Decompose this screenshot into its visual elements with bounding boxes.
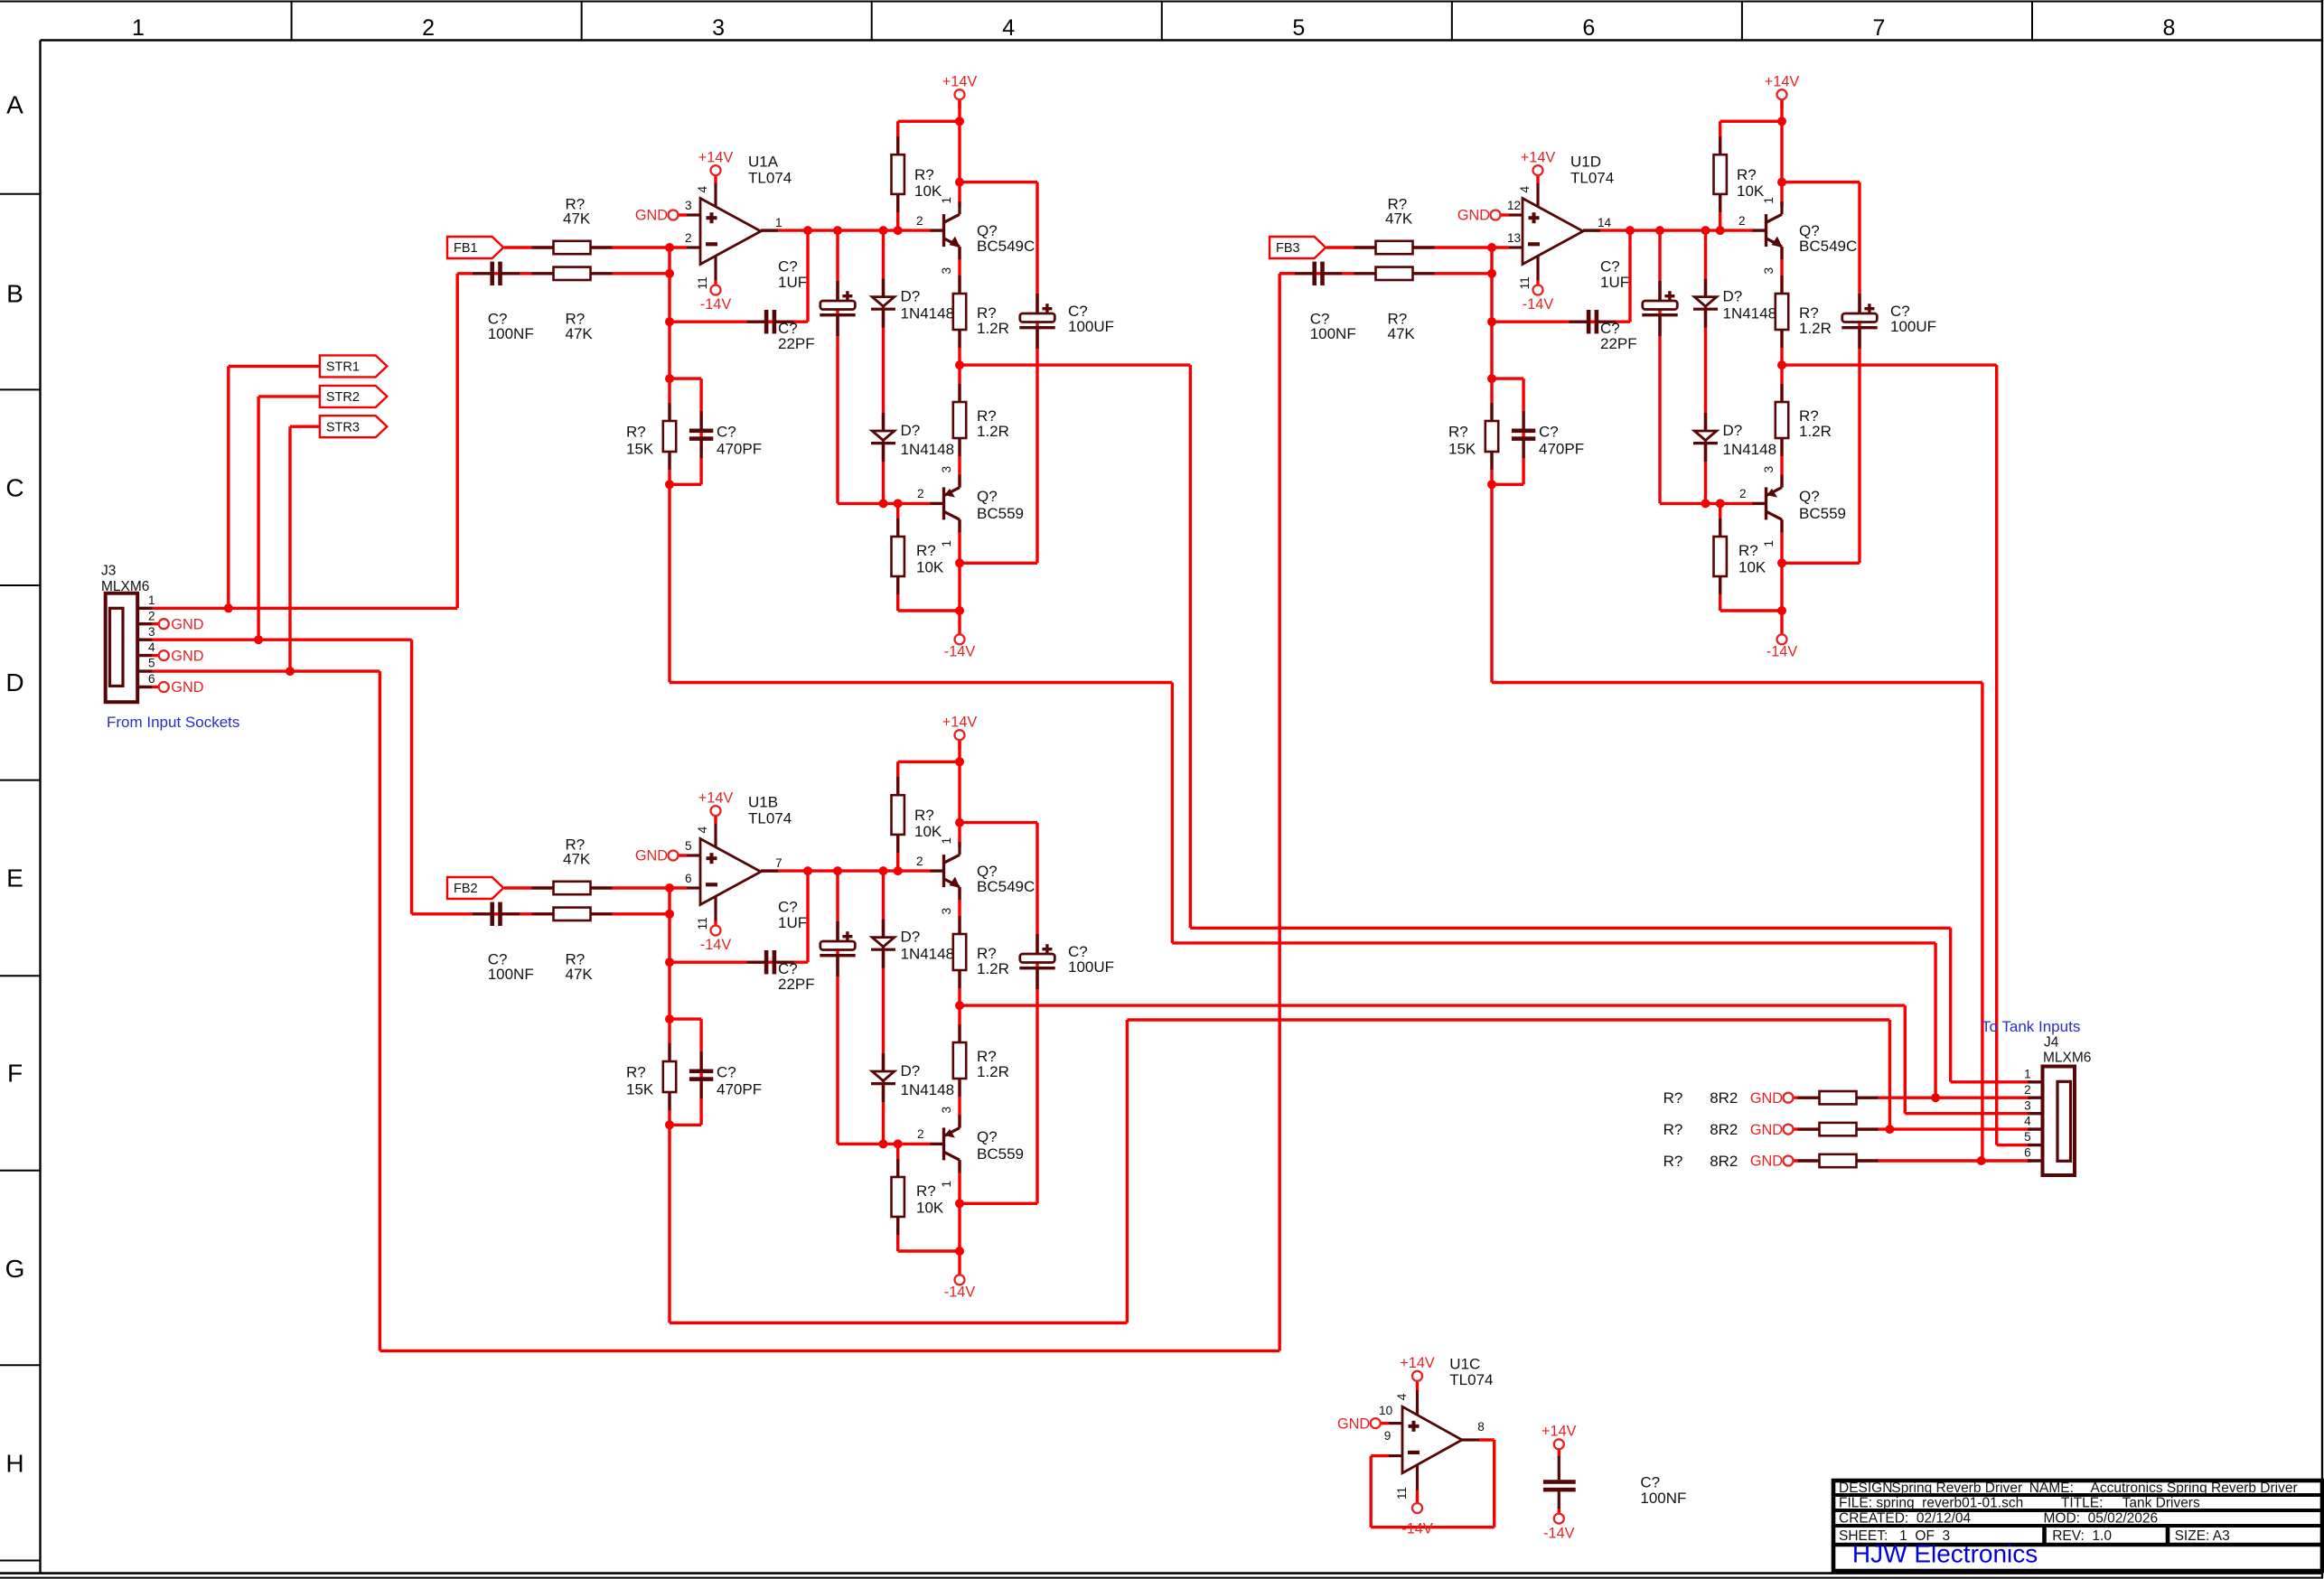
diode D? 1N4148 (upper): [871, 920, 895, 968]
resistor R? 47K (feedback input): [532, 908, 613, 920]
svg-text:J4: J4: [2044, 1034, 2059, 1050]
svg-text:D: D: [5, 668, 23, 696]
svg-text:5: 5: [1292, 15, 1305, 41]
svg-text:5: 5: [685, 839, 692, 853]
wire: [1704, 230, 1707, 503]
svg-text:Spring Reverb Driver: Spring Reverb Driver: [1891, 1481, 2022, 1496]
svg-text:3: 3: [1762, 267, 1776, 275]
label R? 10K: [914, 166, 942, 200]
label R? 15K: [1448, 424, 1476, 458]
svg-text:+14V: +14V: [1542, 1424, 1577, 1440]
svg-text:U1A: U1A: [748, 153, 779, 170]
wire: [1583, 229, 1753, 231]
svg-text:100UF: 100UF: [1890, 318, 1936, 335]
svg-text:R?: R?: [916, 1182, 936, 1200]
svg-text:15K: 15K: [626, 440, 654, 457]
title block: [1833, 1481, 2322, 1571]
ground flag GND: [635, 848, 679, 864]
svg-text:GND: GND: [635, 848, 668, 864]
label R? 8R2: [1663, 1121, 1738, 1138]
svg-text:H: H: [5, 1450, 23, 1478]
svg-text:1.2R: 1.2R: [977, 1063, 1009, 1080]
ground flag GND: [159, 648, 204, 664]
wire: [1416, 1490, 1419, 1504]
svg-text:1.2R: 1.2R: [977, 320, 1009, 337]
junction: [665, 1014, 674, 1023]
svg-text:13: 13: [1507, 231, 1521, 245]
svg-text:3: 3: [940, 1107, 953, 1114]
svg-text:+14V: +14V: [698, 789, 734, 806]
wire: [714, 280, 717, 286]
label D? 1N4148: [1723, 422, 1777, 458]
svg-text:4: 4: [696, 186, 709, 193]
junction: [894, 1139, 903, 1148]
svg-text:47K: 47K: [563, 851, 591, 868]
svg-text:1: 1: [940, 837, 953, 845]
junction: [224, 603, 233, 612]
junction: [879, 1139, 888, 1148]
pin numbers Q? BC559: [917, 1107, 953, 1188]
svg-text:470PF: 470PF: [717, 440, 762, 457]
junction: [955, 606, 964, 615]
wire: [898, 120, 960, 123]
svg-text:TL074: TL074: [748, 169, 792, 186]
wire: [761, 229, 931, 231]
svg-text:10K: 10K: [916, 559, 944, 576]
junction: [879, 226, 888, 235]
svg-text:BC549C: BC549C: [977, 878, 1035, 895]
junction: [1487, 480, 1496, 489]
op-amp U1C TL074 (spare): [1379, 1356, 1493, 1500]
note From Input Sockets: [107, 714, 239, 731]
svg-text:MLXM6: MLXM6: [101, 579, 149, 594]
wire: [960, 181, 1037, 183]
svg-text:-14V: -14V: [700, 937, 732, 953]
svg-text:2: 2: [685, 231, 692, 245]
wire: [958, 611, 961, 635]
label R? 10K: [916, 542, 944, 576]
svg-text:1N4148: 1N4148: [901, 441, 955, 458]
svg-text:47K: 47K: [1385, 210, 1413, 228]
svg-text:E: E: [6, 864, 23, 892]
junction: [665, 269, 674, 278]
wire STR1: [229, 366, 320, 608]
svg-text:11: 11: [1395, 1487, 1409, 1500]
svg-text:2: 2: [916, 214, 923, 228]
ground flag GND: [1750, 1154, 1794, 1170]
svg-text:470PF: 470PF: [1539, 440, 1584, 457]
svg-text:GND: GND: [1337, 1415, 1370, 1432]
resistor R? 1.2R (lower emitter): [953, 384, 966, 456]
svg-text:U1C: U1C: [1449, 1356, 1480, 1373]
label D? 1N4148: [901, 929, 955, 963]
wire: [1279, 272, 1492, 275]
svg-text:10K: 10K: [916, 1200, 944, 1217]
resistor R? 10K (upper bias): [892, 136, 904, 212]
label R? 1.2R: [977, 304, 1009, 337]
resistor R? 47K (feedback input): [1354, 267, 1435, 280]
wire: [670, 960, 808, 963]
net flag FB1: [447, 237, 503, 258]
svg-text:8: 8: [1477, 1420, 1485, 1434]
svg-text:1: 1: [132, 15, 145, 41]
label R? 47K: [563, 195, 591, 227]
diode D? 1N4148 (upper): [1693, 279, 1718, 328]
wire: [1326, 246, 1509, 248]
node FB2 sense loop (R15K to J4 pin4): [670, 1020, 1889, 1323]
label D? 1N4148: [901, 422, 955, 458]
svg-text:1UF: 1UF: [1600, 274, 1629, 291]
svg-text:1N4148: 1N4148: [901, 946, 955, 963]
wire: [153, 622, 160, 625]
wire: [1492, 321, 1630, 323]
junction: [955, 757, 964, 766]
svg-text:100NF: 100NF: [1310, 325, 1356, 342]
junction: [1777, 117, 1786, 126]
svg-text:R?: R?: [1663, 1089, 1683, 1107]
svg-text:4: 4: [1395, 1393, 1409, 1400]
svg-text:1N4148: 1N4148: [901, 305, 955, 322]
svg-text:100UF: 100UF: [1068, 318, 1114, 335]
svg-text:HJW Electronics: HJW Electronics: [1852, 1540, 2038, 1568]
svg-text:TL074: TL074: [1570, 169, 1614, 186]
power flag +14V: [942, 73, 978, 99]
wire: [1780, 247, 1783, 488]
wire 8R2 row 2: [1792, 1127, 2031, 1130]
wire: [1380, 1422, 1389, 1425]
svg-text:10K: 10K: [1738, 559, 1766, 576]
power flag +14V: [1542, 1424, 1577, 1450]
wire: [958, 739, 961, 847]
svg-text:15K: 15K: [626, 1080, 654, 1098]
svg-text:D?: D?: [901, 288, 921, 305]
svg-text:1N4148: 1N4148: [1723, 305, 1777, 322]
svg-text:A: A: [6, 90, 23, 118]
svg-text:2: 2: [148, 609, 155, 622]
label C? 1UF: [1600, 257, 1629, 290]
svg-text:470PF: 470PF: [717, 1080, 762, 1098]
svg-text:Q?: Q?: [977, 488, 998, 505]
ground flag GND: [159, 616, 204, 632]
junction: [955, 558, 964, 567]
junction: [955, 178, 964, 187]
svg-text:TL074: TL074: [748, 809, 792, 827]
svg-text:4: 4: [1002, 15, 1015, 41]
diode D? 1N4148 (lower): [871, 1053, 895, 1102]
svg-text:2: 2: [1738, 214, 1746, 228]
label D? 1N4148: [1723, 288, 1777, 322]
resistor R? 1.2R (lower emitter): [953, 1024, 966, 1097]
wire: [960, 562, 1037, 565]
svg-text:3: 3: [940, 466, 953, 473]
svg-text:TITLE:: TITLE:: [2061, 1496, 2104, 1511]
svg-text:+14V: +14V: [1400, 1355, 1435, 1371]
label R? 47K: [1388, 311, 1416, 342]
wire J3 pin1 to STR1 and channel1 input: [153, 274, 457, 609]
label R? 47K: [566, 951, 594, 983]
svg-text:12: 12: [1507, 199, 1521, 212]
svg-text:100UF: 100UF: [1068, 958, 1114, 976]
resistor R? 1.2R (upper emitter): [953, 276, 966, 348]
svg-text:3: 3: [940, 267, 953, 275]
wire: [1035, 182, 1038, 564]
wire: [1416, 1380, 1419, 1390]
junction: [665, 910, 674, 919]
wire: [806, 871, 809, 962]
capacitor C? 22PF (compensation): [747, 950, 794, 974]
svg-text:3: 3: [148, 625, 155, 639]
svg-text:10: 10: [1379, 1404, 1393, 1417]
capacitor C? 470PF (feedback): [689, 1051, 713, 1098]
wire: [1780, 98, 1783, 207]
label C? 100UF: [1068, 943, 1114, 976]
svg-text:R?: R?: [914, 166, 934, 183]
label R? 47K: [563, 836, 591, 867]
svg-text:REV: 1.0: REV: 1.0: [2052, 1528, 2112, 1544]
net flag FB3: [1270, 237, 1326, 258]
svg-text:22PF: 22PF: [778, 976, 815, 993]
wire: [958, 247, 961, 488]
svg-text:5: 5: [148, 657, 155, 670]
junction: [833, 866, 842, 875]
svg-text:CREATED: 02/12/04: CREATED: 02/12/04: [1839, 1511, 1972, 1527]
net flag STR2: [320, 386, 387, 407]
svg-text:G: G: [5, 1255, 25, 1283]
capacitor C? 1UF (output coupling): [1642, 281, 1677, 336]
wire: [1780, 98, 1783, 108]
wire: [838, 502, 931, 505]
label R? 10K: [916, 1182, 944, 1217]
junction: [955, 360, 964, 369]
label R? 10K: [1737, 166, 1765, 200]
svg-text:1.2R: 1.2R: [1799, 320, 1832, 337]
svg-text:2: 2: [916, 855, 923, 868]
svg-text:R?: R?: [1663, 1121, 1683, 1138]
label R? 10K: [1738, 542, 1766, 576]
wire: [677, 854, 687, 856]
label C? 100NF: [488, 311, 534, 342]
junction: [955, 818, 964, 827]
pin numbers Q? BC559: [917, 466, 953, 547]
junction: [1487, 269, 1496, 278]
junction: [665, 317, 674, 326]
svg-text:1.2R: 1.2R: [977, 960, 1009, 977]
wire: [668, 1019, 670, 1125]
label R? 10K: [914, 807, 942, 840]
svg-text:10K: 10K: [914, 182, 942, 200]
capacitor C? 22PF (compensation): [1570, 310, 1616, 333]
svg-text:10K: 10K: [914, 823, 942, 840]
wire: [896, 1144, 899, 1251]
svg-text:4: 4: [696, 827, 709, 834]
svg-text:R?: R?: [916, 542, 936, 559]
junction: [1626, 226, 1635, 235]
resistor R? 8R2 (tank return sense): [1798, 1123, 1879, 1135]
resistor R? 15K (feedback): [663, 1043, 676, 1110]
wire: [670, 483, 701, 486]
wire: [668, 888, 670, 1019]
label R? 15K: [626, 1064, 654, 1098]
wire: [670, 377, 701, 379]
svg-text:3: 3: [712, 15, 725, 41]
svg-text:SIZE: A3: SIZE: A3: [2175, 1528, 2230, 1544]
resistor R? 47K (input): [1354, 241, 1435, 254]
resistor R? 15K (feedback): [1485, 403, 1498, 470]
svg-text:2: 2: [917, 1127, 924, 1141]
svg-text:3: 3: [2024, 1098, 2031, 1112]
transistor Q? BC549C (NPN): [931, 842, 1035, 900]
svg-text:To Tank Inputs: To Tank Inputs: [1982, 1018, 2080, 1035]
label R? 15K: [626, 424, 654, 458]
svg-text:4: 4: [1518, 186, 1532, 193]
wire: [1782, 562, 1860, 565]
wire: [1558, 1507, 1560, 1515]
wire: [714, 174, 717, 183]
svg-text:F: F: [7, 1059, 23, 1087]
wire: [1499, 213, 1509, 216]
svg-text:FB1: FB1: [454, 241, 478, 256]
resistor R? 47K (input): [532, 882, 613, 894]
wire: [670, 1124, 701, 1126]
svg-text:GND: GND: [1750, 1122, 1783, 1138]
wire: [896, 121, 899, 230]
svg-text:J3: J3: [101, 563, 116, 578]
svg-text:11: 11: [696, 276, 709, 289]
connector J4 MLXM6: [2024, 1034, 2091, 1175]
svg-text:10K: 10K: [1737, 182, 1765, 200]
wire: [960, 1202, 1037, 1205]
capacitor C? 100UF (supply decoupling): [1019, 934, 1054, 989]
wire: [714, 920, 717, 927]
label C? 22PF: [778, 960, 815, 993]
resistor R? 10K (lower bias): [892, 519, 904, 594]
svg-text:C?: C?: [717, 1064, 736, 1081]
label D? 1N4148: [901, 1062, 955, 1098]
wire: [1558, 1448, 1560, 1458]
power flag +14V: [1400, 1355, 1435, 1381]
wire: [882, 871, 885, 1144]
svg-text:FB3: FB3: [1276, 241, 1300, 256]
svg-text:6: 6: [2024, 1146, 2031, 1160]
svg-text:5: 5: [2024, 1130, 2031, 1144]
junction: [955, 1001, 964, 1010]
svg-text:DESIGN: DESIGN: [1839, 1481, 1892, 1496]
label C? 22PF: [1600, 320, 1637, 352]
junction: [879, 499, 888, 508]
svg-text:1: 1: [1762, 197, 1776, 204]
svg-text:1UF: 1UF: [778, 274, 807, 291]
svg-text:-14V: -14V: [1523, 296, 1554, 313]
transistor Q? BC549C (NPN): [931, 201, 1035, 259]
wire 8R2 row 1: [1792, 1096, 2031, 1098]
svg-text:7: 7: [775, 856, 782, 870]
node channel2 output bus (mid node to J4 pin3): [960, 1005, 2031, 1114]
svg-text:R?: R?: [1737, 166, 1757, 183]
svg-text:BC549C: BC549C: [977, 238, 1035, 255]
power flag -14V: [700, 926, 732, 954]
svg-text:R?: R?: [626, 1064, 646, 1081]
label C? 100NF: [1640, 1473, 1686, 1506]
power flag -14V: [944, 634, 976, 659]
wire: [504, 886, 687, 889]
node channel1 output bus (mid node to J4 pin1): [960, 365, 2031, 1082]
wire: [1490, 378, 1493, 484]
transistor Q? BC549C (NPN): [1753, 201, 1858, 259]
svg-text:B: B: [6, 280, 23, 308]
svg-text:11: 11: [1518, 276, 1532, 289]
pin numbers Q? BC549C: [916, 197, 953, 275]
wire: [457, 272, 670, 275]
label R? 1.2R: [1799, 407, 1832, 440]
svg-text:8: 8: [2163, 15, 2176, 41]
wire: [1536, 280, 1539, 286]
wire J3 pin3 to STR2 and channel2 input: [153, 640, 412, 914]
svg-text:1N4148: 1N4148: [1723, 441, 1777, 458]
label R? 1.2R: [977, 1048, 1009, 1080]
svg-text:2: 2: [917, 487, 924, 500]
svg-text:3: 3: [940, 908, 953, 915]
junction: [1777, 360, 1786, 369]
wire: [153, 654, 160, 657]
svg-text:7: 7: [1872, 15, 1885, 41]
label R? 8R2: [1663, 1089, 1738, 1107]
svg-text:GND: GND: [635, 208, 668, 224]
svg-text:100NF: 100NF: [1640, 1490, 1686, 1507]
svg-text:15K: 15K: [1448, 440, 1476, 457]
svg-text:STR1: STR1: [326, 360, 360, 374]
junction: [955, 117, 964, 126]
label R? 1.2R: [1799, 304, 1832, 337]
svg-text:GND: GND: [171, 648, 203, 664]
junction: [803, 866, 812, 875]
wire: [806, 230, 809, 322]
svg-text:STR3: STR3: [326, 420, 360, 434]
label C? 470PF: [717, 1064, 762, 1098]
svg-text:47K: 47K: [563, 210, 591, 228]
wire: [836, 230, 839, 503]
wire: [898, 761, 960, 763]
capacitor C? 100UF (supply decoupling): [1841, 294, 1877, 349]
svg-text:1: 1: [2024, 1067, 2031, 1080]
wire: [1719, 121, 1721, 230]
wire: [896, 761, 899, 871]
svg-text:R?: R?: [1663, 1153, 1683, 1170]
wire: [1522, 378, 1524, 484]
pin numbers Q? BC559: [1739, 466, 1776, 547]
svg-text:Q?: Q?: [977, 1128, 998, 1145]
svg-text:U1B: U1B: [748, 793, 778, 810]
wire: [699, 378, 702, 484]
wire: [412, 912, 670, 915]
svg-text:1.2R: 1.2R: [1799, 423, 1832, 440]
svg-text:1N4148: 1N4148: [901, 1081, 955, 1098]
resistor R? 10K (lower bias): [1714, 519, 1727, 594]
svg-text:8R2: 8R2: [1710, 1089, 1738, 1107]
net flag STR3: [320, 416, 387, 437]
svg-text:11: 11: [696, 917, 709, 930]
power flag +14V: [698, 789, 734, 816]
svg-text:NAME:: NAME:: [2029, 1481, 2074, 1496]
net flag FB2: [447, 877, 503, 899]
wire: [761, 869, 931, 872]
svg-text:4: 4: [2024, 1115, 2031, 1128]
svg-text:C: C: [5, 474, 23, 502]
op-amp U1A TL074: [685, 153, 792, 289]
junction: [1716, 226, 1725, 235]
wire: [958, 519, 961, 611]
svg-text:-14V: -14V: [1401, 1520, 1433, 1537]
wire: [504, 246, 687, 248]
